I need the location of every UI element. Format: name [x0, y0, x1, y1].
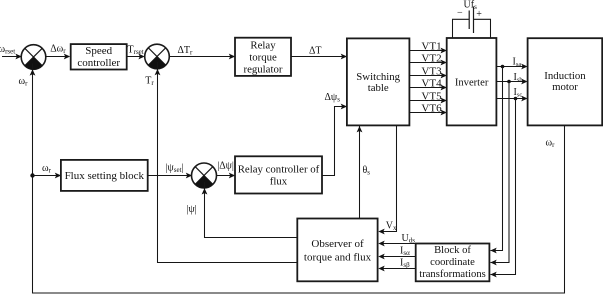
svg-text:Inverter: Inverter	[455, 78, 489, 89]
wire: VT4 switching table to inverter	[409, 77, 447, 90]
wire: VT1 switching table to inverter	[409, 40, 447, 53]
wire: I_sc inverter to motor	[496, 87, 527, 101]
svg-text:table: table	[368, 82, 389, 94]
summing junction S2 (torque error)	[145, 44, 170, 69]
wire: flux setting block to S3, |psi_set|	[148, 173, 193, 179]
svg-text:VT3: VT3	[421, 65, 442, 77]
block: Relay torque regulator	[235, 38, 291, 76]
svg-text:transformations: transformations	[419, 269, 486, 280]
junction dot I_sa	[501, 65, 505, 69]
wire: T_r feedback observer to S2	[155, 62, 297, 263]
wire: S2 to relay torque regulator, Delta T_r	[169, 54, 235, 60]
wire: VT5 switching table to inverter	[409, 90, 447, 103]
svg-text:torque and flux: torque and flux	[304, 252, 372, 264]
battery U_fs (DC link source)	[453, 0, 491, 38]
svg-text:ΔT: ΔT	[309, 46, 322, 57]
wire: omega_r feedback motor to S1 via bottom bus	[30, 64, 565, 294]
wire: I_s_beta coordinate block to observer	[378, 266, 415, 272]
wire: I_sa tap to coordinate block	[490, 67, 502, 254]
block: Speed controller	[71, 44, 127, 69]
svg-text:|Δψ|: |Δψ|	[217, 161, 234, 172]
wire: omega_r branch to flux setting block	[33, 173, 62, 179]
wire: VT6 switching table to inverter	[409, 102, 447, 115]
svg-text:VT1: VT1	[421, 40, 441, 52]
svg-text:−: −	[457, 7, 463, 18]
block: Block of coordinate transformations	[416, 244, 490, 282]
summing junction S3 (flux error)	[192, 163, 217, 188]
wire: S1 to speed controller, Delta omega_r	[45, 54, 70, 60]
block: Observer of torque and flux	[297, 219, 377, 282]
wire: I_sa inverter to motor	[496, 56, 527, 69]
wire: VT2 switching table to inverter	[409, 52, 447, 65]
svg-text:Observer of: Observer of	[311, 238, 364, 250]
summing junction S1 (speed error)	[21, 45, 46, 70]
svg-text:VT6: VT6	[421, 102, 442, 114]
wire: |psi| feedback observer to S3	[202, 182, 297, 238]
svg-text:Relay controller of: Relay controller of	[238, 164, 320, 176]
wire: I_sb inverter to motor	[496, 72, 527, 85]
block: Switching table	[347, 38, 410, 125]
svg-text:controller: controller	[77, 57, 120, 69]
svg-text:motor: motor	[552, 81, 578, 93]
wire: U_ds coordinate block to observer	[378, 241, 415, 247]
junction dot I_sb	[507, 80, 511, 84]
svg-text:Block of: Block of	[434, 245, 471, 256]
block: Induction motor	[528, 38, 603, 125]
wire: I_s_alpha coordinate block to observer	[378, 254, 415, 260]
svg-text:regulator: regulator	[244, 64, 283, 76]
svg-text:|ψ|: |ψ|	[187, 204, 197, 215]
block: Relay controller of flux	[235, 156, 322, 193]
svg-text:VT4: VT4	[421, 77, 442, 89]
svg-text:VT5: VT5	[421, 90, 442, 102]
svg-text:coordinate: coordinate	[430, 257, 475, 268]
svg-text:Speed: Speed	[85, 45, 112, 57]
svg-text:VT2: VT2	[421, 52, 441, 64]
wire: S3 to relay flux controller, |Delta psi|	[217, 173, 236, 179]
wire: relay flux controller to switching table, Delta psi_s	[322, 104, 347, 176]
junction dot I_sc	[514, 97, 518, 101]
wire: theta_s observer to switching table	[357, 126, 363, 219]
svg-text:+: +	[476, 9, 482, 20]
wire: I_sb tap to coordinate block	[490, 82, 509, 266]
wire: I_sc tap to coordinate block	[490, 99, 515, 278]
svg-text:torque: torque	[249, 52, 277, 64]
svg-text:flux: flux	[270, 176, 288, 188]
wire: omega_rset input	[2, 54, 22, 60]
block: Inverter	[447, 38, 497, 125]
svg-text:Flux setting block: Flux setting block	[65, 170, 145, 182]
svg-text:Relay: Relay	[250, 40, 276, 52]
wire: VT3 switching table to inverter	[409, 65, 447, 78]
wire: V_x switching table to observer	[378, 125, 396, 234]
junction dot omega_r branch	[30, 173, 34, 177]
wire: regulator to switching table, Delta T	[291, 54, 347, 60]
wire: speed controller to S2, T_rset	[128, 54, 145, 60]
block: Flux setting block	[61, 160, 148, 191]
